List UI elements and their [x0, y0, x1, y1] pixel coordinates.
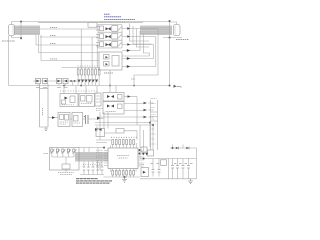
wire: harness W2 fan vertical 5 [122, 34, 149, 57]
pin label row above RN2 [111, 136, 137, 138]
junction pad at (104,147.5) [103, 147, 105, 149]
wire: J2 top stub [170, 22, 177, 25]
wire: harness W2 fan vertical 4 [139, 31, 141, 51]
wire: row2 interconnect [70, 117, 104, 120]
wire: stubs rail to relay row [64, 86, 97, 95]
label: M1 left pin text [44, 153, 49, 155]
relay K6 (second row) [58, 113, 70, 127]
wire: bundle vertical a [134, 29, 158, 86]
diode D10 (top right) [170, 147, 197, 150]
diode D8 [97, 117, 101, 120]
diode mark row1 output [127, 27, 130, 30]
junction pad at (169.5,37.5) [169, 37, 171, 39]
net arrow 1 [144, 102, 148, 104]
thermistor RT2 [56, 149, 60, 154]
component F0 (small box on top wire) [88, 23, 97, 28]
wire: comb bottom stubs to rail [78, 75, 99, 86]
connector J2 (right) [174, 25, 181, 36]
wire: bus line y=52.5 [39, 52, 100, 54]
wire: bottom rail y=178.8 [140, 178, 197, 180]
wire: cluster stubs to rail [38, 81, 73, 86]
relay K2 row internals [100, 34, 123, 40]
power block U3b with protection diodes [103, 102, 124, 115]
ground symbol GND2 [188, 179, 193, 184]
wire: top rail y=21.5 [21, 21, 170, 23]
net arrow 3 [144, 116, 148, 118]
pin numbers above resistor comb RN1 [78, 65, 100, 67]
wire: harness W1 drop x=41 [40, 35, 42, 61]
label: net 2 [149, 109, 154, 111]
pin number row above relay boxes [60, 90, 98, 92]
junction pad at (153,125) [152, 124, 154, 126]
junction pad at (64,85.5) [63, 85, 65, 87]
wire: J2 bottom wire y=37.5 [163, 37, 182, 39]
wire: MCU left pin stubs [104, 151, 108, 166]
wire: MCU top pin stubs [110, 143, 136, 148]
wire: series link y=81 [33, 80, 78, 82]
junction pad at (169.5,85.5) [169, 85, 171, 87]
wire: relay row2 input stubs [96, 34, 100, 38]
thermistor RT1 [51, 149, 55, 154]
wire: row3 output y=44.5 [122, 44, 154, 46]
wire: ground rail y=177 [104, 176, 141, 178]
junction pad at (81,85.5) [80, 85, 82, 87]
label: pin numbers on group top [100, 21, 126, 23]
diode D6 on return line [127, 65, 130, 68]
junction pad at (21,38) [20, 37, 22, 39]
wire: comb top stubs [78, 68, 99, 70]
wire: vertical x=92 from bus2 [91, 37, 93, 68]
label: U2 bottom text [104, 72, 113, 74]
wire: cap bank rail y=174.5 [80, 174, 104, 176]
label: text under module M1 [58, 173, 74, 175]
driver block U2 [99, 52, 122, 70]
label: net z at x=133 [131, 78, 135, 80]
capacitor C9 [171, 159, 174, 179]
wire: M1 internal bus [52, 152, 74, 157]
wire: net arrow line y=117 [98, 116, 144, 118]
capacitor C11 [182, 159, 185, 179]
wire: net arrow line y=110 [124, 110, 144, 112]
capacitor bank C2-C6 under band [83, 162, 104, 175]
component M1 sub box [62, 164, 70, 169]
caption text line 2 [76, 180, 112, 182]
comparator block U4 [96, 129, 124, 137]
wire: bundle vertical c [153, 45, 155, 59]
optocoupler U7 [43, 78, 48, 83]
label: bus line 1 [50, 26, 57, 28]
wire: U3 top stubs [110, 86, 116, 93]
wire: harness W2 fan vertical 2 [133, 26, 151, 44]
wire: bus line y=60.5 [41, 60, 99, 62]
wire: vertical x=168.5 [168, 159, 170, 179]
cable harness W2 (right gray band) [140, 26, 172, 36]
label: net 3 [149, 116, 154, 118]
note: blue annotation text block [104, 14, 135, 19]
wire: U3a output y=96.5 [124, 96, 137, 98]
relay K7 [72, 113, 83, 127]
junction pad at (139.5,150) [139, 149, 141, 151]
wire: vertical at x=21 [20, 22, 22, 41]
resistor comb RN2 (above MCU) [112, 140, 135, 145]
wire: RN2 bottom stubs into MCU [113, 145, 134, 149]
diode row D7 under comb [77, 80, 98, 83]
wire: U2 bottom stub [109, 70, 111, 86]
junction pad at (139.5,153.5) [139, 153, 141, 155]
diode D3 on link [52, 116, 55, 119]
junction pad at (150,122.5) [149, 122, 151, 124]
label: net name right of J2 [176, 39, 189, 41]
relay K5 [79, 94, 95, 107]
wire: return line into U2 y=66.5 [122, 66, 156, 68]
label: bus line 5 [50, 58, 57, 60]
wire: J1 bottom stub [12, 36, 22, 38]
ground at T1 bottom [44, 127, 48, 130]
wire: right verticals into MCU zone [140, 125, 144, 151]
sensor module M1 (bottom left box) [50, 148, 80, 171]
MCU U1 [108, 148, 138, 169]
ground symbol GND1 [122, 177, 127, 182]
resistor comb RN1 [77, 69, 100, 75]
wire: MCU right pin stubs [138, 151, 144, 166]
diode D4 on return line [127, 49, 130, 52]
wire: left trunk from J1 [8, 36, 10, 86]
wire: stubs band top [84, 148, 98, 153]
junction pad at (110,85.5) [109, 85, 111, 87]
wire: relay row3 input stubs [96, 42, 100, 46]
label: J1 reference text [2, 40, 15, 42]
wire: bus line y=45 [36, 44, 98, 46]
junction pad at (143.5,158.5) [143, 158, 145, 160]
wire: MCU bottom pin stubs [111, 169, 137, 172]
wire: return line into U2 y=50.5 [122, 50, 140, 52]
capacitor C1 (polarized) [84, 115, 89, 124]
capacitor C7 [152, 159, 155, 177]
connector J1 (left) [9, 25, 15, 36]
relay K3 row internals [100, 42, 123, 48]
diode D11 (top right) [186, 147, 189, 150]
offpage arrow A1 (right of rail) [174, 85, 182, 88]
junction pad at (21,21.5) [20, 21, 22, 23]
label: marks near MCU right [140, 164, 145, 166]
caption text line 3 [76, 182, 110, 184]
diode pair D9 (below row) [95, 128, 102, 131]
capacitor C10 [176, 159, 179, 179]
label: cap values right section [151, 163, 193, 165]
wire: vertical x=81 from bus1 [80, 29, 82, 68]
wire: M1 stub down [65, 157, 67, 172]
diode mark row3 output [127, 43, 130, 46]
label: net 1 [149, 102, 154, 104]
wire: long line y=125 [95, 125, 153, 150]
wire: vertical x=169.5 down to rail [169, 22, 171, 87]
power block U3a with protection diodes [103, 93, 124, 102]
wire: rail y=85.5 [9, 85, 170, 87]
wire: verticals feeding MCU zone [100, 112, 108, 140]
transformer T1 (tall box) [40, 84, 49, 127]
label: MCU left pin names [96, 150, 103, 165]
wire: return line into U2 y=58.5 [122, 58, 154, 60]
wire: line above band y=147.5 [79, 147, 104, 149]
thermistor RT3 [62, 149, 66, 154]
wire: J1 top to top rail [12, 22, 22, 25]
junction pad at (169.5,21) [169, 20, 171, 22]
wire: vertical x=137 [136, 97, 138, 126]
wire: harness W2 fan vertical 3 [137, 29, 150, 48]
wire: harness W1 drop x=36 [35, 35, 37, 45]
regulator U5 [141, 168, 149, 177]
wire: line y=133 to ladder [124, 131, 137, 140]
optocoupler U6 [36, 78, 41, 83]
resistor row RN3 (below MCU) [112, 171, 135, 176]
diode mark row2 output [127, 35, 130, 38]
net arrow 2 [144, 109, 148, 111]
capacitor C8 [158, 159, 161, 177]
wire: bus line y=67.5 [62, 67, 101, 69]
wire: stub under K5 [97, 112, 104, 132]
wire: row1 output y=28.5 [122, 28, 158, 30]
junction pad at (172.5,148) [172, 147, 174, 149]
caption text line 1 [76, 178, 98, 180]
wire: RN3 stubs to rail [113, 175, 134, 177]
wire: harness W1 drop x=38.5 [38, 35, 40, 53]
diode pair D2 (small) [71, 80, 76, 82]
cable harness W1 (left gray band) [12, 26, 40, 36]
wire: feeds left of MCU [96, 140, 111, 171]
wire: bundle vertical b [155, 37, 157, 67]
wire: long line y=122.5 [95, 123, 150, 148]
wire: stubs above diodes [173, 145, 184, 149]
label: bus line 2 [50, 34, 56, 36]
thermistor RT5 [73, 149, 77, 154]
relay K4 [60, 94, 78, 107]
optocoupler U9 [63, 78, 68, 83]
label: cluster refs [36, 86, 68, 88]
diode mark on U3a output [127, 95, 130, 98]
wire: net arrow line y=103 [124, 103, 144, 105]
label: text under U10 [96, 109, 103, 111]
wire: top horizontal y=22.7 [38, 22, 143, 24]
relay K1 row internals [100, 26, 123, 32]
supervisor U10 (small box) [95, 93, 101, 106]
label: bus line 3 [50, 42, 56, 44]
thermistor RT4 [67, 149, 71, 154]
diode D5 on return line [127, 57, 130, 60]
cable harness W3 (bottom gray band) [75, 152, 109, 162]
wire: harness W2 fan vertical 1 [130, 24, 150, 42]
net label ladder X1 [151, 99, 158, 150]
junction pad at (134,85.5) [133, 85, 135, 87]
wire: link T1 to K6 [48, 117, 58, 119]
wire: power rail y=158.5 [140, 158, 197, 160]
optocoupler U8 [57, 78, 62, 83]
relay group K1-K3 outer rows [98, 25, 122, 49]
wire: bus line y=29 [40, 28, 98, 30]
wire: vertical x=97 from top wire [96, 45, 98, 68]
crystal Y1 [141, 147, 154, 156]
inductor L1 [161, 160, 167, 166]
wire: row2 output y=36.5 [122, 36, 156, 38]
junction pad at (124.5,177) [124, 176, 126, 178]
wire: bus line y=37 [40, 36, 98, 38]
capacitor C12 [187, 159, 190, 179]
label: cap bank values [83, 164, 102, 166]
wire: right edge vertical [196, 148, 198, 179]
wire: relay row1 input stubs [96, 27, 100, 31]
wire: vertical x=140 [139, 152, 141, 159]
